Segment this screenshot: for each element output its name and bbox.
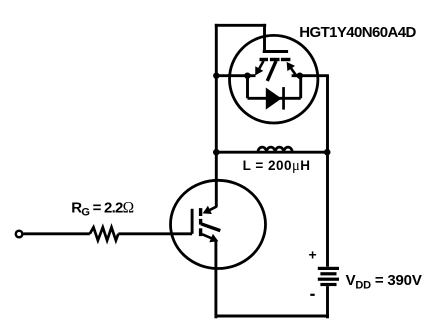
svg-text:HGT1Y40N60A4D: HGT1Y40N60A4D: [299, 24, 416, 41]
svg-text:RG = 2.2Ω: RG = 2.2Ω: [71, 199, 133, 218]
svg-text:VDD = 390V: VDD = 390V: [346, 272, 422, 292]
svg-text:L = 200μH: L = 200μH: [243, 158, 311, 174]
svg-text:+: +: [309, 247, 317, 263]
